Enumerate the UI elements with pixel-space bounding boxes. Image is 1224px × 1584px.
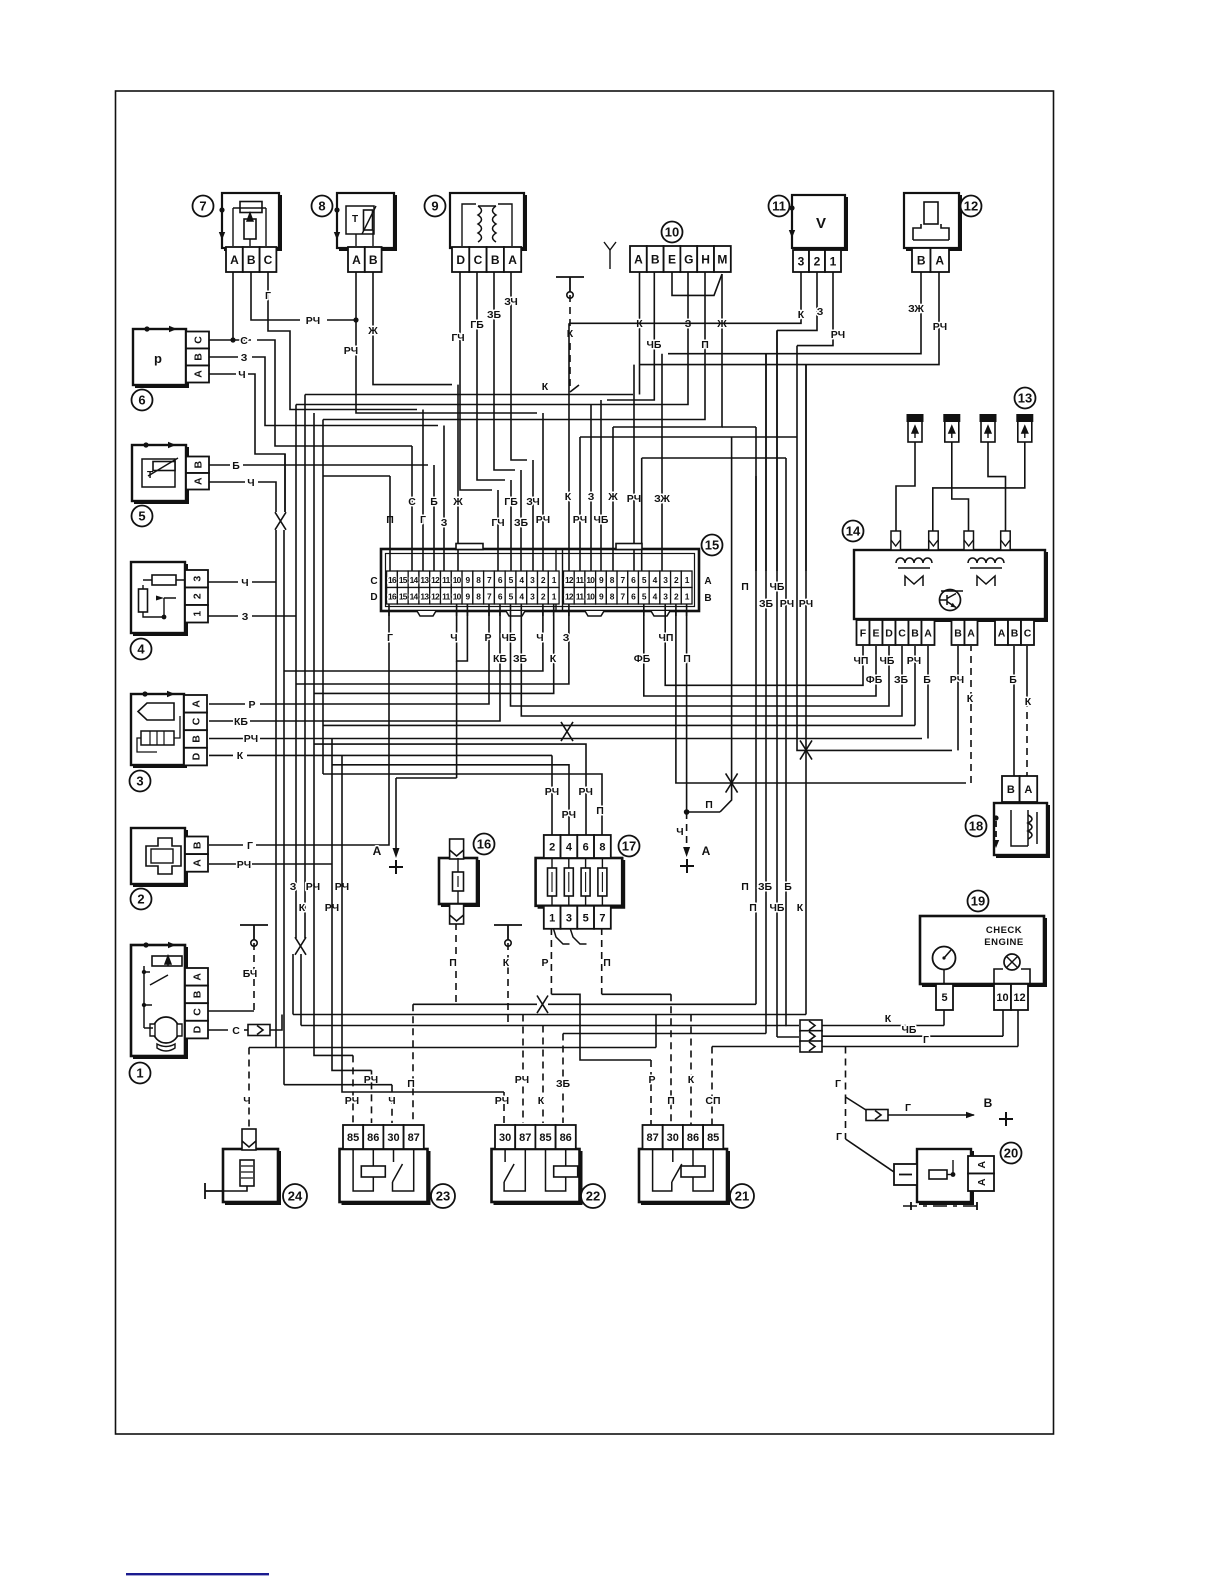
svg-text:A: A (976, 1178, 988, 1186)
wire КБ: conn3-C to ECU D6 (209, 611, 507, 728)
wire ЗЖ: conn12-B to ECU A3 and right trunk x766 (654, 272, 924, 571)
svg-text:Г: Г (420, 514, 426, 526)
svg-text:85: 85 (347, 1132, 359, 1144)
wire РЧ drop to ECU A11 (573, 437, 797, 571)
svg-text:V: V (816, 215, 826, 232)
svg-text:К: К (885, 1013, 892, 1025)
wire П drop to ECU C16 (323, 420, 390, 775)
wire ЗБ: right trunk to relay22-86 (556, 1034, 766, 1124)
svg-text:A: A (192, 477, 204, 485)
svg-text:A: A (1024, 784, 1032, 796)
coil towers on module 14 (891, 531, 1010, 550)
wire П: ECU B1 to junction with Ч battery arrow (676, 611, 720, 873)
svg-text:D: D (370, 592, 377, 603)
wire З: conn6-B to ECU C11 (209, 352, 448, 571)
svg-text:Ч: Ч (536, 632, 543, 644)
svg-text:A: A (191, 859, 203, 867)
svg-text:B: B (247, 253, 256, 267)
svg-text:3: 3 (798, 254, 805, 268)
connector 7 CO potentiometer (193, 193, 281, 272)
svg-text:G: G (684, 252, 693, 266)
svg-text:6: 6 (138, 393, 145, 408)
wire ЗЧ: conn9-A to ECU C3 (504, 272, 540, 571)
svg-text:6: 6 (583, 841, 589, 853)
wire РЧ: conn12-A to ECU A6 and right trunk x806 (627, 272, 947, 571)
svg-text:РЧ: РЧ (799, 598, 813, 610)
wire Г hanging to starter 20 and B+ arrow (835, 1047, 1013, 1173)
svg-text:11: 11 (576, 575, 584, 585)
svg-text:РЧ: РЧ (344, 345, 358, 357)
svg-text:Г: Г (923, 1034, 929, 1046)
svg-text:A: A (508, 253, 517, 267)
svg-text:ЧБ: ЧБ (770, 581, 785, 593)
svg-text:П: П (749, 902, 757, 914)
svg-text:ЗБ: ЗБ (487, 309, 502, 321)
wire ЗБ: conn9-B to ECU C4 (487, 272, 529, 571)
ground К mid-bottom (494, 925, 522, 1026)
wire П branch down to junction (720, 437, 732, 812)
svg-text:ГБ: ГБ (470, 319, 484, 331)
svg-text:10: 10 (996, 992, 1008, 1004)
svg-text:А: А (704, 576, 711, 587)
svg-text:4: 4 (566, 841, 573, 853)
svg-text:C: C (192, 336, 204, 344)
svg-text:B: B (192, 461, 204, 469)
svg-text:10: 10 (586, 575, 595, 585)
svg-text:РЧ: РЧ (244, 733, 258, 745)
svg-text:Б: Б (430, 496, 438, 508)
wire Ч: left trunk to relay23-30 (284, 1085, 396, 1123)
ground antenna top middle (556, 277, 584, 392)
wire Ч: conn4-3 to left trunk (186, 577, 276, 589)
svg-text:A: A (192, 370, 204, 378)
svg-text:30: 30 (667, 1132, 679, 1144)
svg-text:ЗЧ: ЗЧ (504, 296, 518, 308)
svg-text:19: 19 (971, 894, 985, 909)
wire З К crossover left column (296, 395, 305, 939)
svg-text:12: 12 (565, 575, 574, 585)
inline connector stack x801-821 (800, 1020, 822, 1052)
fuse block 17 (536, 835, 640, 944)
svg-text:РЧ: РЧ (237, 859, 251, 871)
svg-text:10: 10 (586, 591, 595, 601)
svg-text:Ч: Ч (676, 826, 683, 838)
wire П right trunk x756 (755, 476, 757, 571)
svg-text:С: С (232, 1025, 240, 1037)
svg-text:A: A (924, 627, 932, 639)
wire РЧ: conn2-A to left trunk (209, 859, 332, 871)
svg-text:Ч: Ч (247, 477, 254, 489)
svg-text:14: 14 (410, 591, 419, 601)
wire К: ECU D1 to left trunk (314, 611, 557, 693)
svg-text:A: A (976, 1161, 988, 1169)
svg-text:C: C (898, 627, 906, 639)
svg-text:A: A (998, 627, 1006, 639)
svg-text:7: 7 (199, 199, 206, 214)
svg-text:РЧ: РЧ (933, 321, 947, 333)
wire А pin7A junction (232, 272, 234, 340)
wire П: fuse17-7 to relay21-30 (602, 928, 675, 1126)
svg-text:87: 87 (646, 1132, 658, 1144)
svg-text:П: П (741, 581, 749, 593)
svg-text:C: C (1024, 627, 1032, 639)
svg-text:СП: СП (705, 1095, 720, 1107)
svg-text:К: К (565, 491, 572, 503)
svg-text:РЧ: РЧ (627, 493, 641, 505)
svg-text:П: П (603, 957, 611, 969)
svg-text:1: 1 (191, 611, 203, 617)
wire З: conn11-2 to right trunk x777 (777, 272, 824, 571)
svg-text:З: З (290, 881, 297, 893)
svg-text:ГБ: ГБ (504, 496, 518, 508)
svg-text:C: C (474, 253, 483, 267)
svg-text:РЧ: РЧ (345, 1095, 359, 1107)
svg-text:З: З (817, 306, 824, 318)
svg-text:РЧ: РЧ (573, 514, 587, 526)
svg-text:П: П (407, 1078, 415, 1090)
svg-text:С: С (240, 335, 248, 347)
svg-text:З: З (242, 611, 249, 623)
svg-text:ГЧ: ГЧ (451, 332, 464, 344)
svg-text:11: 11 (442, 591, 450, 601)
wire К: ECU B2 to module14 group2-A (676, 611, 974, 783)
svg-text:17: 17 (622, 839, 636, 854)
module 14 pin group ABC (995, 620, 1034, 645)
wire ГЧ: conn9-D to ECU C6 (451, 272, 504, 571)
svg-text:11: 11 (772, 199, 786, 214)
svg-text:Ч: Ч (450, 632, 457, 644)
connector 9 idle air valve (425, 193, 526, 272)
svg-text:C: C (191, 1008, 203, 1016)
svg-text:ЗБ: ЗБ (759, 598, 774, 610)
svg-text:B: B (911, 627, 919, 639)
svg-text:B: B (191, 990, 203, 998)
connector 5 intake air temp sensor (132, 442, 210, 527)
svg-text:9: 9 (431, 199, 438, 214)
svg-text:Ж: Ж (452, 496, 463, 508)
wire Ч: conn5-A to left trunk (209, 477, 276, 512)
wire ЧБ right trunk vertical (770, 330, 785, 1037)
svg-text:ЧБ: ЧБ (880, 655, 895, 667)
svg-text:86: 86 (560, 1132, 572, 1144)
svg-text:H: H (701, 252, 710, 266)
svg-text:К: К (237, 750, 244, 762)
wire Ч loop ECU D10-D9 (450, 611, 467, 661)
svg-text:16: 16 (388, 575, 397, 585)
svg-text:30: 30 (499, 1132, 511, 1144)
svg-text:12: 12 (431, 591, 440, 601)
svg-text:Г: Г (247, 840, 253, 852)
svg-text:С: С (408, 496, 416, 508)
svg-text:ФБ: ФБ (634, 653, 651, 665)
svg-text:К: К (538, 1095, 545, 1107)
wire РЧ: conn3-B long bus to module14-A (209, 646, 931, 745)
wire ЧБ: conn10-B to ECU A9 (594, 272, 662, 571)
svg-text:16: 16 (477, 837, 491, 852)
svg-text:A: A (352, 253, 361, 267)
svg-text:22: 22 (586, 1189, 600, 1204)
svg-text:РЧ: РЧ (515, 1074, 529, 1086)
wire П: fuse16 supply and battery arrow A+ (373, 661, 457, 874)
svg-text:8: 8 (318, 199, 325, 214)
connector 8 coolant temp sensor (312, 193, 396, 272)
svg-text:A: A (230, 253, 239, 267)
svg-text:Б: Б (1009, 674, 1017, 686)
relay 23 cooling fan relay (340, 1125, 456, 1208)
ignition module 14 (843, 521, 1047, 621)
svg-text:Т: Т (352, 214, 358, 225)
svg-text:13: 13 (420, 575, 429, 585)
crossover of Ч wires (275, 512, 286, 530)
svg-text:3: 3 (566, 912, 572, 924)
svg-text:РЧ: РЧ (780, 598, 794, 610)
svg-text:ГЧ: ГЧ (491, 517, 504, 529)
svg-text:З: З (588, 491, 595, 503)
svg-text:C: C (264, 253, 273, 267)
svg-text:A: A (190, 700, 202, 708)
svg-text:Р: Р (484, 632, 491, 644)
wire ФБ: ECU B5 to module14-E (634, 611, 883, 696)
svg-text:30: 30 (387, 1132, 399, 1144)
svg-text:C: C (190, 717, 202, 725)
svg-text:ФБ: ФБ (866, 674, 883, 686)
svg-text:14: 14 (410, 575, 419, 585)
svg-text:П: П (741, 881, 749, 893)
wire К bus: conn10-A to ECU A12 and left column (305, 272, 643, 571)
svg-text:РЧ: РЧ (545, 786, 559, 798)
svg-text:B: B (491, 253, 500, 267)
svg-text:Г: Г (905, 1102, 911, 1114)
svg-text:15: 15 (399, 575, 408, 585)
svg-text:ЗБ: ЗБ (513, 653, 528, 665)
svg-text:К: К (299, 902, 306, 914)
connector 6 fuel pressure regulator (132, 326, 210, 411)
wire РЧ bus y1014 (293, 1015, 806, 1127)
svg-text:10: 10 (453, 575, 462, 585)
svg-text:A: A (935, 253, 944, 267)
svg-text:18: 18 (969, 819, 983, 834)
svg-text:Г: Г (835, 1078, 841, 1090)
svg-text:CHECK: CHECK (986, 925, 1022, 936)
svg-text:ЧБ: ЧБ (647, 339, 662, 351)
svg-text:4: 4 (137, 642, 145, 657)
transistor inside module 14 (940, 590, 964, 611)
wire РЧ right trunk vertical partial (784, 365, 813, 1015)
ECU connector 15 shell (381, 535, 723, 617)
connector 1 fuel pump assembly (130, 942, 209, 1084)
svg-text:B: B (192, 353, 204, 361)
svg-text:ЧБ: ЧБ (594, 514, 609, 526)
svg-text:2: 2 (191, 593, 203, 599)
svg-text:1: 1 (549, 912, 555, 924)
svg-text:E: E (872, 627, 879, 639)
svg-text:B: B (191, 841, 203, 849)
spark plug leads 13 to coil towers (896, 442, 1025, 531)
svg-text:D: D (456, 253, 465, 267)
relay 22 main relay (492, 1125, 606, 1208)
svg-text:П: П (667, 1095, 675, 1107)
wire З: ECU B12 to left trunk (296, 611, 570, 684)
connector 2 octane plug (131, 828, 209, 910)
wire РЧ: left trunk to fuse17-4 (332, 765, 576, 835)
svg-text:З: З (241, 352, 248, 364)
wire ГБ: conn9-C to ECU C5 (470, 272, 518, 571)
svg-text:1: 1 (830, 254, 837, 268)
svg-text:П: П (683, 653, 691, 665)
crossover below ECU (561, 722, 573, 741)
wire РЧ: left trunk to module14-B (323, 646, 921, 725)
svg-text:11: 11 (442, 575, 450, 585)
wire П: left trunk to fuse17-8 (323, 774, 604, 835)
svg-text:С: С (370, 576, 377, 587)
svg-text:К: К (967, 693, 974, 705)
svg-text:2: 2 (549, 841, 555, 853)
svg-text:К: К (797, 902, 804, 914)
wire Г: conn2-B to ECU D16 (209, 611, 393, 852)
wire РЧ: left trunk to relay23-85 (314, 413, 359, 1123)
wire РЧ: right trunk to module14 group2-B (797, 346, 964, 751)
svg-text:87: 87 (408, 1132, 420, 1144)
svg-text:13: 13 (420, 591, 429, 601)
wire Ж: conn8-B to ECU C10 (367, 272, 463, 571)
svg-text:В: В (704, 593, 711, 604)
svg-text:К: К (503, 957, 510, 969)
svg-text:24: 24 (288, 1189, 303, 1204)
module 14 pin group BA (952, 620, 978, 645)
crossover on РЧ line at right trunk (800, 740, 812, 759)
svg-text:87: 87 (519, 1132, 531, 1144)
svg-text:2: 2 (137, 892, 144, 907)
svg-text:Б: Б (923, 674, 931, 686)
svg-text:А: А (702, 844, 711, 858)
relay 21 fuel pump relay (639, 1125, 754, 1208)
wire С: conn6-C to ECU C14 (209, 335, 416, 571)
svg-text:ЗБ: ЗБ (758, 881, 773, 893)
svg-text:M: M (717, 252, 727, 266)
svg-text:РЧ: РЧ (950, 674, 964, 686)
wire ЗБ: ECU D4 to module14-C (513, 611, 909, 716)
wire П: conn10-H to left trunk (323, 272, 709, 526)
svg-text:ЧБ: ЧБ (902, 1024, 917, 1036)
svg-text:РЧ: РЧ (495, 1095, 509, 1107)
svg-text:ЧП: ЧП (854, 655, 869, 667)
wire РЧ: left trunk to relay22-30 (342, 755, 509, 1123)
svg-text:ENGINE: ENGINE (984, 937, 1023, 948)
wire К bus y1025 to connector stack and cluster 19-5 (301, 1010, 944, 1123)
spark plugs 13 (907, 388, 1036, 443)
svg-text:B: B (1007, 784, 1015, 796)
wire РЧ left drop from РЧ bus (0, 0, 1, 1)
svg-text:РЧ: РЧ (536, 514, 550, 526)
wire Ч: ECU D2 to left trunk (284, 611, 544, 671)
svg-text:21: 21 (735, 1189, 749, 1204)
svg-text:8: 8 (599, 841, 605, 853)
svg-text:Р: Р (248, 699, 255, 711)
svg-text:10: 10 (453, 591, 462, 601)
ECU 15 pin entry stubs (389, 549, 687, 616)
svg-text:85: 85 (707, 1132, 719, 1144)
wire Р: conn3-A to ECU D7 (209, 611, 492, 711)
svg-text:5: 5 (583, 912, 589, 924)
conn10 E-M bridge (672, 272, 722, 295)
svg-text:14: 14 (846, 524, 861, 539)
wire Ч: bottom bus to sensor 24 (243, 1015, 656, 1130)
svg-text:З: З (563, 632, 570, 644)
svg-text:12: 12 (565, 591, 574, 601)
svg-text:БЧ: БЧ (243, 968, 258, 980)
svg-text:К: К (542, 381, 549, 393)
svg-text:Г: Г (265, 290, 271, 302)
svg-text:23: 23 (436, 1189, 450, 1204)
svg-text:B: B (954, 627, 962, 639)
starter 20 pins A A (968, 1156, 994, 1191)
svg-text:E: E (668, 252, 676, 266)
wire ЧБ: ECU D5 to module14-D (502, 611, 895, 706)
svg-text:B: B (190, 735, 202, 743)
svg-text:Р: Р (541, 957, 548, 969)
svg-text:ЧБ: ЧБ (770, 902, 785, 914)
wire Г СП: relay21-85, connector stack, cluster 19-12 (705, 1010, 1018, 1126)
wire ЧП: ECU B3 to module14-F (659, 611, 869, 685)
svg-text:85: 85 (539, 1132, 551, 1144)
svg-text:D: D (885, 627, 893, 639)
svg-text:Ч: Ч (388, 1095, 395, 1107)
svg-text:Г: Г (387, 632, 393, 644)
wire РЧ: conn7-B / conn8-A junction to ECU C2 (251, 272, 550, 571)
connector 3 crankshaft sensor (130, 691, 208, 792)
svg-text:ЗЖ: ЗЖ (654, 493, 670, 505)
svg-text:15: 15 (399, 591, 408, 601)
svg-text:р: р (154, 351, 162, 366)
starter-block 20 (894, 1143, 1022, 1211)
wire РЧ: left trunk to fuse17-6 (314, 744, 593, 835)
module 14 pin group FEDCBA (857, 620, 935, 645)
svg-text:Ч: Ч (238, 369, 245, 381)
svg-text:ЗБ: ЗБ (894, 674, 909, 686)
svg-text:Р: Р (648, 1074, 655, 1086)
diagram frame border (116, 91, 1054, 1434)
svg-text:2: 2 (814, 254, 821, 268)
crossover of П branch on К line (726, 773, 738, 792)
wire Ж: conn10-M to ECU A8 (607, 274, 756, 571)
svg-text:Б: Б (232, 460, 240, 472)
wire К: conn11-3 to A12 trunk (569, 272, 805, 323)
svg-text:D: D (191, 1025, 203, 1033)
wire РЧ: conn11-1 to right trunk x797 (797, 272, 845, 346)
svg-text:РЧ: РЧ (579, 786, 593, 798)
svg-text:К: К (567, 328, 574, 340)
wire Ч: conn6-A down left side (209, 369, 285, 512)
connector 10 harness row (630, 222, 731, 273)
svg-text:К: К (1025, 696, 1032, 708)
wire З: conn4-1 to left trunk (186, 611, 296, 623)
svg-text:РЧ: РЧ (306, 881, 320, 893)
wire БЧ ground to pump connector 1-C (208, 925, 268, 1011)
svg-text:B: B (369, 253, 378, 267)
svg-text:1: 1 (136, 1066, 143, 1081)
svg-text:A: A (191, 973, 203, 981)
cluster 19 pins 5 10 12 (936, 984, 1028, 1010)
svg-text:10: 10 (665, 225, 679, 240)
svg-text:Ч: Ч (243, 1095, 250, 1107)
wire С: pump connector 1-D through inline connector (208, 1015, 282, 1038)
wire Б: conn5-B bus to ECU C12 (209, 460, 438, 571)
wire К right trunk vertical (749, 458, 794, 1026)
svg-text:3: 3 (191, 576, 203, 582)
svg-text:5: 5 (941, 992, 947, 1004)
solenoid 18 canister purge valve (966, 776, 1049, 856)
wire Б К: module14 group3 to solenoid 18 (1009, 646, 1032, 776)
